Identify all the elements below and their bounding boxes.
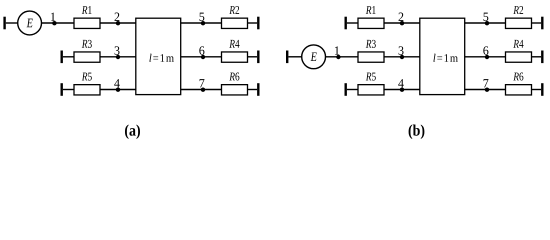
node 3 (fig a)	[116, 55, 120, 59]
node 4 (fig a)	[116, 88, 120, 92]
label l = 1 m	[149, 54, 173, 62]
terminal (right, fig a)	[257, 51, 259, 64]
label 6	[199, 46, 204, 54]
node 5 (fig b)	[485, 21, 489, 25]
label 1	[51, 13, 55, 21]
transmission line box (l = 1 m, fig b)	[420, 18, 465, 94]
terminal (right, fig a)	[257, 17, 259, 30]
voltage source E (fig a)	[18, 11, 42, 35]
wire	[347, 22, 358, 24]
node 1 (fig a)	[52, 21, 56, 25]
wire	[248, 89, 258, 91]
terminal (right, fig a)	[257, 83, 259, 96]
label 5	[484, 13, 489, 21]
resistor R4 (fig b)	[506, 52, 532, 62]
wire	[532, 89, 542, 91]
label 7	[484, 79, 489, 87]
terminal (source side, fig b)	[286, 51, 288, 64]
node 7 (fig b)	[485, 88, 489, 92]
wire	[532, 22, 542, 24]
wire	[384, 22, 420, 24]
transmission line box (l = 1 m, fig a)	[136, 18, 181, 94]
label l = 1 m	[433, 54, 457, 62]
voltage source E (fig b)	[302, 45, 326, 69]
label R5	[366, 73, 376, 81]
wire	[63, 89, 74, 91]
wire	[326, 56, 359, 58]
label 3	[399, 46, 404, 54]
terminal (right, fig b)	[541, 51, 543, 64]
wire	[384, 56, 420, 58]
resistor R2 (fig a)	[222, 18, 248, 28]
label R4	[229, 40, 239, 48]
wire	[465, 22, 506, 24]
label 4	[114, 79, 120, 87]
terminal (left, fig a)	[61, 83, 63, 96]
node 5 (fig a)	[201, 21, 205, 25]
label R3	[366, 40, 376, 48]
label 5	[200, 13, 205, 21]
terminal (left, fig b)	[345, 17, 347, 30]
node 6 (fig a)	[201, 55, 205, 59]
resistor R3 (fig b)	[358, 52, 384, 62]
label 2	[399, 13, 404, 21]
label 6	[483, 46, 488, 54]
wire	[347, 89, 358, 91]
label R2	[513, 6, 523, 14]
node 7 (fig a)	[201, 88, 205, 92]
resistor R5 (fig b)	[358, 85, 384, 95]
wire	[288, 56, 301, 58]
wire	[63, 56, 74, 58]
resistor R1 (fig b)	[358, 18, 384, 28]
label R4	[513, 40, 523, 48]
node 6 (fig b)	[485, 55, 489, 59]
wire	[181, 89, 222, 91]
wire	[248, 56, 258, 58]
wire	[6, 22, 18, 24]
terminal (right, fig b)	[541, 17, 543, 30]
label 3	[115, 46, 120, 54]
wire	[465, 56, 506, 58]
label R5	[82, 73, 92, 81]
label 2	[115, 13, 120, 21]
label 7	[200, 79, 205, 87]
label 1	[335, 46, 339, 54]
label 4	[398, 79, 404, 87]
label R6	[229, 73, 239, 81]
node 1 (fig b)	[336, 55, 340, 59]
resistor R1 (fig a)	[74, 18, 100, 28]
wire	[100, 56, 136, 58]
resistor R4 (fig a)	[222, 52, 248, 62]
terminal (source side, fig a)	[3, 17, 5, 30]
caption (b)	[409, 124, 425, 139]
label R2	[229, 6, 239, 14]
node 2 (fig b)	[400, 21, 404, 25]
resistor R6 (fig a)	[222, 85, 248, 95]
wire	[100, 89, 136, 91]
wire	[181, 22, 222, 24]
wire	[384, 89, 420, 91]
wire	[42, 22, 75, 24]
node 2 (fig a)	[116, 21, 120, 25]
terminal (left, fig a)	[61, 51, 63, 64]
wire	[248, 22, 258, 24]
label R6	[513, 73, 523, 81]
resistor R5 (fig a)	[74, 85, 100, 95]
label R1	[82, 6, 92, 14]
wire	[465, 89, 506, 91]
caption (a)	[125, 124, 140, 139]
terminal (left, fig b)	[345, 83, 347, 96]
node 3 (fig b)	[400, 55, 404, 59]
terminal (right, fig b)	[541, 83, 543, 96]
wire	[100, 22, 136, 24]
resistor R2 (fig b)	[506, 18, 532, 28]
node 4 (fig b)	[400, 88, 404, 92]
resistor R6 (fig b)	[506, 85, 532, 95]
label R3	[82, 40, 92, 48]
wire	[181, 56, 222, 58]
wire	[532, 56, 542, 58]
resistor R3 (fig a)	[74, 52, 100, 62]
label R1	[366, 6, 376, 14]
